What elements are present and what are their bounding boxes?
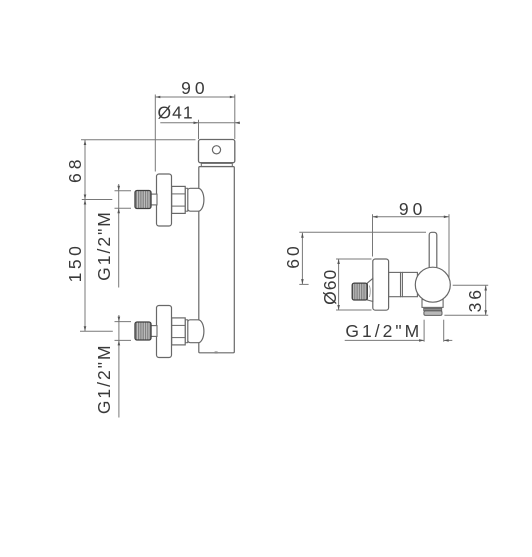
- side view: thread transition cone: [367, 278, 373, 301]
- lower inlet: flange: [157, 306, 172, 358]
- lower inlet: dome connector to body: [188, 320, 204, 343]
- svg-text:G1/2"M: G1/2"M: [345, 321, 422, 341]
- dim 150: bottom extension line (lower inlet axis): [80, 330, 113, 332]
- dim 90 top: left extension line: [154, 95, 156, 172]
- dim G1/2M bottom: arrows: [419, 339, 449, 342]
- dim 60: arrows: [301, 233, 304, 284]
- column top cap: [199, 140, 235, 163]
- dim 68/150: main vertical dimension line: [84, 140, 86, 331]
- side view: outlet aerator: [424, 311, 442, 316]
- side view: lever handle: [429, 232, 437, 272]
- dim Phi60: dimension line: [338, 259, 340, 310]
- dim Phi41: dimension line: [160, 122, 238, 124]
- lower inlet: knurled nut G1/2: [135, 322, 151, 340]
- lower inlet: band: [185, 320, 188, 343]
- dim 90 right: left extension line: [372, 214, 374, 256]
- dim 90 right: right extension line: [448, 214, 450, 283]
- svg-text:Ø60: Ø60: [320, 269, 340, 305]
- upper inlet: band: [185, 188, 188, 211]
- upper inlet: hex nut: [172, 186, 186, 213]
- side view: knurled thread G1/2: [352, 283, 367, 300]
- dim 90 top: arrows: [155, 96, 235, 99]
- side view: outlet dark ring: [424, 308, 442, 310]
- upper inlet: knurled nut G1/2: [135, 191, 151, 209]
- dim 36: arrows: [484, 286, 487, 316]
- upper inlet: neck: [151, 194, 157, 205]
- side view: connector ridge band: [401, 272, 403, 296]
- column bottom notch: [215, 351, 218, 353]
- svg-text:G1/2"M: G1/2"M: [94, 343, 114, 414]
- side view: connector rear part: [402, 272, 417, 296]
- svg-text:Ø41: Ø41: [158, 103, 194, 123]
- upper inlet: dome connector to body: [188, 188, 204, 211]
- dim 68/150: arrows: [84, 140, 87, 331]
- side view: connector from flange to valve body: [389, 272, 401, 296]
- lower inlet: neck: [151, 326, 157, 337]
- dim 36: bottom extension line: [444, 314, 488, 316]
- lower inlet: hex facet lines: [172, 325, 186, 337]
- upper inlet: hex facet lines: [172, 194, 186, 206]
- dim 60: bottom extension stub: [299, 283, 308, 285]
- column body: [199, 167, 235, 353]
- dim G1/2M upper: extension lines: [115, 184, 132, 288]
- side view: wall flange disc: [373, 259, 389, 310]
- dim 36: top extension line: [453, 284, 489, 286]
- dim G1/2M lower: arrows: [118, 317, 121, 346]
- side view: outlet collar: [422, 300, 443, 308]
- dim 68: top extension line (cap top): [81, 139, 196, 141]
- side view: cone chamfer marks: [369, 286, 370, 298]
- dim Phi41: arrows: [194, 122, 240, 125]
- dim 60: top extension line (handle top): [299, 231, 426, 233]
- svg-text:90: 90: [181, 78, 208, 98]
- cap screw hole: [212, 146, 220, 154]
- cap neck band: [201, 163, 232, 166]
- dim 90 right: dimension line: [373, 216, 449, 218]
- dim Phi41: left extension line: [198, 120, 200, 139]
- dim 68/150: junction extension line (upper inlet axis): [82, 199, 113, 201]
- svg-text:90: 90: [399, 199, 426, 219]
- upper inlet: flange: [157, 174, 172, 226]
- dim G1/2M lower: extension lines: [115, 315, 132, 418]
- dim 90 top: dimension line: [155, 96, 235, 98]
- dim 90 right: arrows: [373, 216, 449, 219]
- dim 90 top: right extension line: [234, 95, 236, 140]
- dim Phi60: arrows: [337, 259, 340, 310]
- dim Phi60: top extension line: [336, 258, 372, 260]
- dim Phi60: bottom extension line: [336, 309, 372, 311]
- dim 36: dimension line: [485, 286, 487, 316]
- dim G1/2M bottom: extension lines: [345, 320, 453, 342]
- side view: valve body circle: [415, 267, 450, 302]
- svg-text:36: 36: [465, 287, 485, 312]
- svg-text:68: 68: [65, 155, 85, 182]
- dim 60: dimension line: [301, 233, 303, 284]
- dim G1/2M upper: arrows: [117, 186, 120, 214]
- svg-text:150: 150: [65, 243, 85, 283]
- lower inlet: hex nut: [172, 318, 186, 345]
- svg-text:G1/2"M: G1/2"M: [94, 210, 114, 281]
- svg-text:60: 60: [283, 243, 303, 268]
